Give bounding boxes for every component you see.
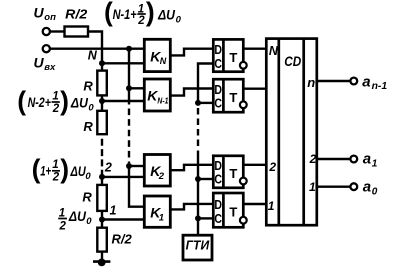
svg-text:1: 1: [59, 207, 65, 219]
svg-text:N: N: [160, 56, 167, 66]
wire Uvx bus dashed: [128, 109, 130, 164]
terminal an-1: [350, 78, 357, 85]
wire clock bus lower to GTI: [197, 151, 199, 237]
CD pin label 1 right: [309, 180, 316, 194]
svg-text:D: D: [214, 42, 222, 57]
svg-text:N-2+: N-2+: [28, 95, 51, 110]
svg-text:2: 2: [104, 160, 112, 174]
terminal Uop: [43, 28, 50, 35]
terminal Uvx: [43, 45, 50, 52]
junction bus tap KN-1: [126, 85, 132, 91]
wire KN output to D input: [170, 49, 214, 56]
wire Uvx bus solid lower to K1 top input: [129, 164, 145, 207]
output label an-1: [362, 74, 387, 93]
svg-text:n-1: n-1: [372, 81, 388, 92]
svg-text:0: 0: [88, 103, 94, 114]
label KN: [150, 48, 167, 66]
wire T2 output to CD input N-1: [243, 87, 267, 89]
svg-text:C: C: [214, 56, 222, 71]
label R/2 top: [65, 7, 88, 22]
wire CD output 1 to terminal a0: [317, 185, 351, 187]
svg-text:R: R: [83, 119, 93, 134]
svg-text:N: N: [88, 49, 98, 63]
svg-text:2: 2: [268, 160, 276, 174]
T2 inverted output bubble: [240, 101, 247, 108]
wire clock bus top to C1 input: [198, 64, 214, 105]
label R/2 bottom: [112, 232, 133, 247]
wire CD output n to terminal: [317, 80, 351, 82]
svg-text:2: 2: [309, 152, 317, 166]
svg-text:a: a: [363, 179, 371, 196]
svg-text:1: 1: [52, 159, 58, 171]
svg-text:C: C: [214, 95, 222, 110]
wire ladder R to node N-1: [101, 95, 103, 111]
svg-text:ΔU: ΔU: [68, 209, 87, 224]
CD pin label N: [269, 44, 279, 58]
ground: [93, 259, 110, 267]
comparator KN box: [144, 39, 170, 71]
svg-text:оп: оп: [44, 12, 56, 23]
value label 1/2 dU0: [58, 207, 92, 232]
node label N: [88, 49, 98, 63]
wire node N to KN bottom input: [102, 62, 145, 64]
node 1 junction: [99, 217, 105, 223]
svg-text:a: a: [363, 151, 371, 168]
wire KN-1 output to D input: [170, 89, 214, 96]
svg-text:R: R: [82, 190, 92, 205]
svg-text:0: 0: [85, 171, 91, 182]
pin label C of T3: [214, 172, 222, 187]
wire R/2 to ladder top: [88, 32, 103, 65]
junction clock tap C2: [195, 100, 201, 106]
svg-text:U: U: [34, 54, 45, 70]
CD pin label 1 left: [268, 199, 275, 213]
pin label C of T4: [214, 211, 222, 226]
flip-flop T3 box with D C inputs: [213, 156, 243, 188]
svg-text:R: R: [83, 78, 93, 93]
wire T1 output to CD input N: [243, 48, 267, 50]
wire node N-1 to KN-1 bottom input: [102, 100, 145, 102]
svg-text:C: C: [214, 172, 222, 187]
comparator K2 box: [144, 155, 170, 187]
priority encoder CD box: [266, 39, 317, 226]
label T2: [229, 90, 237, 105]
wire clock bus dashed: [197, 108, 199, 150]
svg-text:T: T: [229, 204, 237, 219]
svg-text:1: 1: [110, 204, 117, 218]
resistor R/2 top: [65, 27, 89, 37]
label R middle: [83, 119, 93, 134]
output label a0: [363, 179, 378, 198]
wire node 2 to K2 bottom input: [102, 176, 145, 178]
svg-text:1: 1: [372, 158, 378, 169]
wire T4 output to CD input 1: [243, 203, 267, 205]
svg-text:1: 1: [159, 212, 164, 223]
wire bus tap to K2 top input: [129, 165, 145, 167]
svg-text:2: 2: [158, 171, 165, 182]
junction node Uvx bus top: [126, 46, 132, 52]
T1 inverted output bubble: [240, 62, 247, 69]
svg-text:U: U: [34, 4, 45, 20]
svg-text:2: 2: [52, 172, 60, 184]
svg-text:ГТИ: ГТИ: [186, 237, 210, 252]
wire ladder node 1 to R/2 bottom: [101, 251, 103, 262]
output label a1: [363, 151, 378, 170]
wire T3 output to CD input 2: [243, 164, 267, 166]
svg-text:N-1: N-1: [157, 97, 168, 106]
svg-text:a: a: [362, 74, 370, 91]
junction bus tap K2: [126, 163, 132, 169]
label R lower: [82, 190, 92, 205]
T4 inverted output bubble: [240, 217, 247, 224]
pin label D of T3: [214, 158, 222, 173]
T3 inverted output bubble: [240, 178, 247, 185]
label T1: [229, 50, 237, 65]
svg-text:T: T: [229, 166, 237, 181]
label T4: [229, 204, 237, 219]
wire ladder R to node 1: [101, 211, 103, 228]
comparator K1 box: [144, 196, 170, 227]
value label (N-2+1/2)dU0: [17, 86, 94, 116]
resistor R (2 to 1): [97, 185, 107, 211]
svg-text:1: 1: [52, 90, 58, 102]
value label (N-1+1/2)dU0: [104, 0, 182, 27]
wire clock tap to C2 input: [198, 102, 214, 104]
wire Uop to R/2: [50, 30, 66, 32]
svg-text:вх: вх: [44, 62, 56, 73]
resistor R (below N-1): [97, 111, 107, 134]
comparator KN-1 box: [144, 79, 170, 111]
wire Uvx bus solid upper: [128, 49, 130, 105]
svg-text:N-1+: N-1+: [113, 7, 137, 22]
pin label D of T2: [214, 82, 222, 97]
svg-text:ΔU: ΔU: [157, 7, 176, 22]
svg-text:ΔU: ΔU: [70, 164, 87, 179]
node label 1: [110, 204, 117, 218]
resistor R/2 bottom: [97, 228, 107, 252]
label T3: [229, 166, 237, 181]
svg-text:0: 0: [86, 216, 92, 227]
svg-text:): ): [60, 86, 69, 116]
svg-text:2: 2: [52, 103, 60, 115]
svg-text:R/2: R/2: [112, 232, 133, 247]
junction clock tap C4: [195, 215, 201, 221]
label Uvx: [34, 54, 57, 73]
svg-text:0: 0: [176, 14, 182, 25]
clock generator GTI box: [183, 235, 212, 260]
svg-text:): ): [146, 0, 155, 27]
wire node 1 to K1 bottom input: [102, 218, 145, 220]
flip-flop T2 box with D C inputs: [213, 79, 243, 112]
terminal a0: [350, 183, 357, 190]
svg-text:CD: CD: [284, 54, 301, 69]
label GTI: [186, 237, 210, 252]
pin label D of T4: [214, 197, 222, 212]
svg-text:N: N: [269, 44, 279, 58]
node N-1 junction: [99, 98, 105, 104]
svg-text:C: C: [214, 211, 222, 226]
svg-text:0: 0: [372, 187, 378, 198]
terminal a1: [350, 156, 357, 163]
wire ladder dashed segment: [101, 139, 103, 177]
label K1: [150, 204, 164, 223]
CD pin label 2 right: [309, 152, 317, 166]
flip-flop T4 box with D C inputs: [213, 193, 243, 227]
svg-text:): ): [60, 154, 69, 184]
svg-text:n: n: [307, 75, 315, 90]
svg-text:(: (: [17, 86, 26, 116]
svg-text:2: 2: [58, 221, 66, 233]
wire K2 output to D input: [170, 165, 214, 170]
label K2: [150, 163, 165, 182]
svg-text:ΔU: ΔU: [70, 96, 89, 111]
svg-text:1+: 1+: [40, 164, 51, 179]
wire ladder node 2 to R: [101, 177, 103, 186]
svg-text:2: 2: [137, 15, 145, 27]
label KN-1: [147, 88, 169, 106]
svg-text:R/2: R/2: [65, 7, 88, 22]
svg-text:T: T: [229, 50, 237, 65]
resistor R (N to N-1): [97, 71, 107, 96]
wire bus tap to KN-1 top input: [129, 87, 145, 89]
label Uop: [34, 4, 57, 23]
node 2 junction: [99, 174, 105, 180]
CD pin label 2 left: [268, 160, 276, 174]
pin label D of T1: [214, 42, 222, 57]
svg-text:1: 1: [268, 199, 275, 213]
svg-text:1: 1: [309, 180, 316, 194]
wire clock tap to C4 input: [198, 217, 214, 219]
node label 2: [104, 160, 112, 174]
pin label C of T2: [214, 95, 222, 110]
value label (1+1/2)dU0: [32, 154, 92, 184]
node N junction: [99, 60, 105, 66]
wire ladder N to R: [101, 63, 103, 71]
junction clock tap C3: [195, 176, 201, 182]
pin label C of T1: [214, 56, 222, 71]
CD pin label n: [307, 75, 315, 90]
wire Uvx horizontal to KN top input: [50, 48, 146, 50]
label CD: [284, 54, 301, 69]
label R upper: [83, 78, 93, 93]
wire K1 output to D input: [170, 204, 214, 210]
flip-flop T1 box with D C inputs: [213, 39, 243, 71]
wire clock tap to C3 input: [198, 178, 214, 180]
wire CD output 2 to terminal a1: [317, 158, 351, 160]
svg-text:T: T: [229, 90, 237, 105]
